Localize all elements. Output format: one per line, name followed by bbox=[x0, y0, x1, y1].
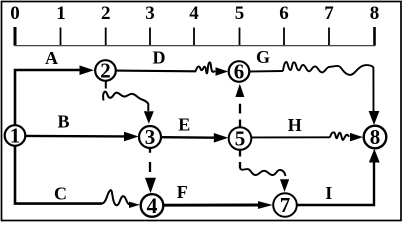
svg-text:8: 8 bbox=[370, 3, 380, 24]
node 4 bbox=[141, 193, 164, 218]
svg-text:8: 8 bbox=[370, 125, 381, 149]
node 6 bbox=[229, 60, 250, 84]
svg-text:B: B bbox=[57, 112, 69, 132]
svg-text:7: 7 bbox=[324, 3, 334, 24]
svg-text:5: 5 bbox=[235, 127, 246, 151]
svg-text:2: 2 bbox=[101, 3, 111, 24]
H float squiggle bbox=[330, 132, 349, 139]
timescale numbers bbox=[10, 3, 379, 24]
svg-text:2: 2 bbox=[100, 59, 111, 83]
activity B: node1 to node3 bbox=[26, 135, 126, 138]
node 2 bbox=[95, 59, 116, 83]
activity A: node1 up and right into node2 bbox=[15, 70, 81, 126]
svg-text:E: E bbox=[178, 115, 190, 135]
dummy 2-3 with float squiggle bbox=[105, 81, 107, 88]
svg-text:6: 6 bbox=[279, 3, 289, 24]
activity F: node4 to node7 bbox=[164, 204, 260, 207]
svg-text:A: A bbox=[45, 48, 58, 68]
node 3 bbox=[139, 125, 161, 149]
svg-text:I: I bbox=[325, 183, 332, 203]
node 8 bbox=[364, 125, 387, 149]
svg-text:4: 4 bbox=[147, 193, 158, 218]
svg-text:1: 1 bbox=[56, 3, 66, 24]
svg-text:7: 7 bbox=[280, 193, 291, 217]
svg-text:G: G bbox=[256, 47, 270, 67]
dummy 3-4 (dashed) bbox=[149, 149, 151, 173]
activity D: node2 toward node6 with squiggle bbox=[116, 70, 196, 73]
svg-text:3: 3 bbox=[145, 125, 156, 149]
svg-text:H: H bbox=[288, 115, 302, 135]
activity I: node7 right then up into node8 bottom bbox=[297, 161, 375, 206]
D float squiggle bbox=[196, 62, 216, 73]
svg-text:6: 6 bbox=[234, 60, 245, 84]
activity H: node5 to node8 with squiggle bbox=[252, 136, 331, 138]
svg-text:4: 4 bbox=[189, 3, 199, 24]
svg-text:C: C bbox=[54, 184, 67, 204]
node 1 bbox=[5, 124, 26, 148]
svg-text:3: 3 bbox=[145, 3, 155, 24]
svg-text:0: 0 bbox=[10, 3, 20, 24]
activity C: node1 down, right, squiggle into node4 bbox=[15, 146, 102, 204]
G float squiggle bbox=[283, 62, 374, 111]
dummy 5-6 (dashed, arrow up) bbox=[239, 104, 241, 127]
svg-text:D: D bbox=[153, 48, 166, 68]
timescale ticks bbox=[15, 27, 375, 46]
C float squiggle bbox=[102, 190, 130, 205]
svg-text:F: F bbox=[177, 182, 188, 202]
dummy 5-7 with float squiggle (arrow down) bbox=[239, 151, 241, 169]
svg-text:5: 5 bbox=[235, 3, 245, 24]
node 7 bbox=[273, 193, 297, 217]
activity G: node6 right, long squiggle, corner down into node8 top bbox=[250, 70, 284, 73]
node 5 bbox=[229, 127, 252, 151]
timescale baseline bbox=[14, 45, 376, 47]
activity E: node3 to node5 bbox=[161, 136, 215, 139]
svg-text:1: 1 bbox=[10, 124, 21, 148]
